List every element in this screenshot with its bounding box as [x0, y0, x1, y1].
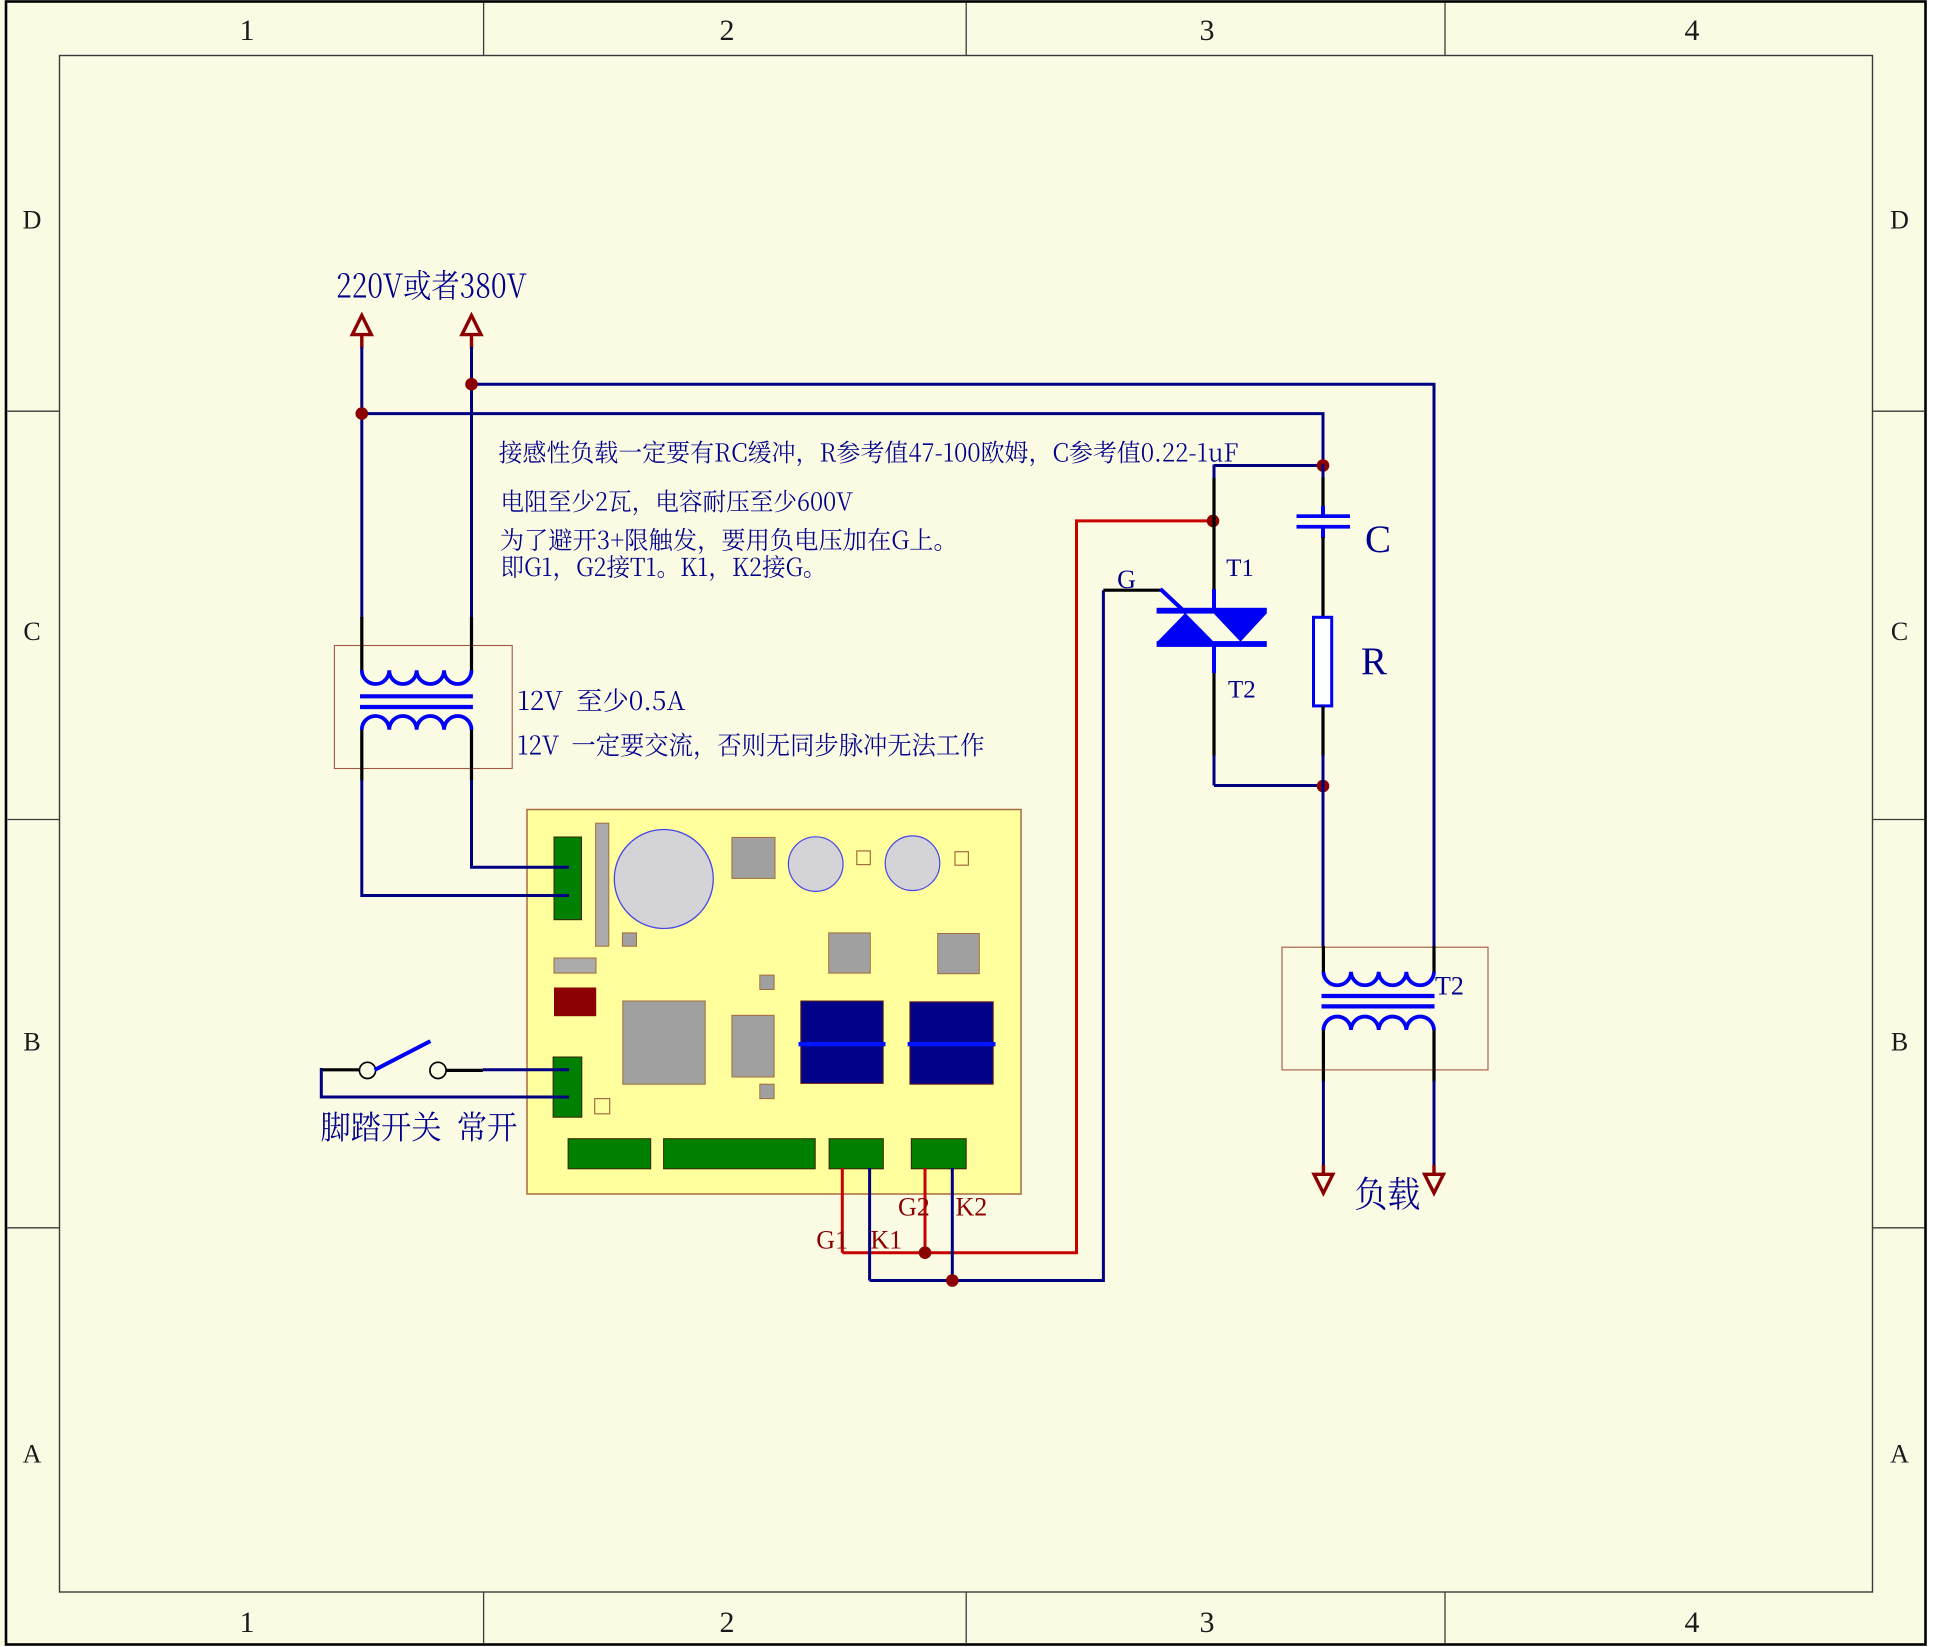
- board output connector 2: [664, 1139, 816, 1169]
- note: RC snubber advice line 2: [504, 489, 853, 515]
- svg-text:B: B: [1891, 1028, 1908, 1057]
- wire: left phase vertical to transformer T1: [360, 347, 363, 619]
- svg-text:K1: K1: [870, 1226, 902, 1255]
- svg-text:R: R: [1361, 640, 1387, 683]
- transformer T2 core: [1322, 994, 1435, 998]
- wire: rail B (left phase) to snubber column: [362, 414, 1323, 465]
- board part (right): [829, 933, 871, 973]
- board output connector 1: [568, 1139, 651, 1169]
- transformer T2 primary coil: [1323, 972, 1434, 985]
- wire: red gate bus to triac T1: [842, 521, 1214, 1253]
- transformer T2 secondary coil: [1323, 1017, 1434, 1030]
- board capacitor 2: [788, 837, 843, 892]
- power arrow P1 (left phase): [352, 315, 371, 334]
- wire: right phase vertical to transformer T1: [470, 347, 473, 619]
- load arrow left: [1322, 1165, 1325, 1175]
- resistor R pin bottom: [1321, 706, 1324, 756]
- svg-text:2: 2: [720, 1606, 735, 1639]
- svg-text:T2: T2: [1228, 676, 1256, 703]
- svg-text:2: 2: [720, 14, 735, 47]
- board pad (outline): [857, 851, 871, 865]
- board small rect (left): [554, 958, 596, 973]
- transformer T1 pins: [360, 617, 363, 671]
- svg-text:G1: G1: [816, 1226, 848, 1255]
- wire: switch to board connector (upper): [483, 1068, 569, 1071]
- wire: T1 pin horizontal to snubber column: [1214, 464, 1323, 467]
- junction: snubber bottom: [1317, 780, 1330, 793]
- board maroon component: [554, 988, 596, 1017]
- board gray header bar: [596, 823, 609, 946]
- triac Q1 T1 pin: [1213, 465, 1216, 479]
- label: foot switch, normally open: [322, 1111, 517, 1141]
- svg-text:C: C: [1891, 617, 1908, 646]
- wire: switch return (lower): [321, 1068, 569, 1097]
- svg-text:3: 3: [1200, 14, 1215, 47]
- foot switch lever: [375, 1041, 431, 1070]
- note: trigger advice line 1: [501, 528, 941, 554]
- junction: snubber top: [1317, 459, 1330, 472]
- junction: gate bus at triac T1 pin: [1207, 515, 1220, 528]
- junction: right phase / rail A: [465, 378, 478, 391]
- board connector (12V input): [554, 837, 582, 920]
- junction: K2 on K bus: [946, 1274, 959, 1287]
- junction: G2 on gate bus: [919, 1246, 932, 1259]
- board output connector 4 (G2 K2): [911, 1139, 966, 1169]
- transformer T1 body box: [334, 646, 512, 769]
- transformer T1 secondary coil: [362, 716, 472, 730]
- board pad 2 (outline): [955, 852, 968, 866]
- wire: K1 cathode lead (navy): [868, 1168, 871, 1281]
- wire: T1 secondary left to board connector: [362, 780, 569, 896]
- svg-text:A: A: [1890, 1439, 1909, 1468]
- wire: K bus to triac gate G: [870, 590, 1104, 1280]
- svg-text:3: 3: [1200, 1606, 1215, 1639]
- board main IC: [623, 1001, 705, 1084]
- resistor R body: [1314, 617, 1332, 706]
- capacitor C pin bottom / resistor pin top: [1321, 528, 1325, 538]
- wire: G2 gate lead (red): [924, 1168, 927, 1253]
- note: RC snubber advice line 1: [499, 440, 1237, 466]
- svg-text:T1: T1: [1226, 555, 1254, 582]
- board gray rect (middle): [732, 1015, 774, 1077]
- svg-text:D: D: [1890, 206, 1909, 235]
- power arrow P2 (right phase): [462, 315, 481, 334]
- svg-text:B: B: [23, 1028, 40, 1057]
- wire: triac T2 to snubber bottom: [1214, 784, 1323, 787]
- board part (far right): [938, 934, 980, 974]
- transformer T2 pins bottom: [1322, 1030, 1325, 1082]
- svg-text:T2: T2: [1435, 972, 1464, 1001]
- triac Q1 gate lead: [1103, 589, 1161, 592]
- svg-text:G2: G2: [898, 1192, 930, 1221]
- board electrolytic capacitor (large): [614, 830, 713, 929]
- wire: rail A (right phase) to right column: [472, 384, 1435, 948]
- svg-text:A: A: [23, 1439, 42, 1468]
- PCB controller board: [527, 810, 1021, 1195]
- board small part: [622, 933, 636, 946]
- board gray module: [732, 837, 775, 878]
- capacitor C pin top: [1322, 464, 1325, 478]
- wire: T2 right to load: [1433, 1081, 1436, 1166]
- transformer T2 body box: [1282, 947, 1488, 1070]
- triac Q1 body: [1157, 608, 1267, 614]
- transformer T1 core: [360, 694, 473, 698]
- svg-text:1: 1: [240, 14, 255, 47]
- wire: G1 gate lead (red): [841, 1168, 844, 1253]
- svg-text:4: 4: [1685, 14, 1700, 47]
- board relay 2: [910, 1002, 993, 1084]
- svg-text:K2: K2: [956, 1192, 988, 1221]
- wire: snubber bottom to transformer T2: [1322, 786, 1325, 948]
- svg-text:4: 4: [1685, 1606, 1700, 1639]
- power net label 220V/380V: [338, 270, 527, 300]
- board pad 3 (outline): [595, 1099, 610, 1114]
- label: load: [1356, 1177, 1419, 1211]
- board connector (foot switch input): [553, 1057, 582, 1117]
- svg-text:G: G: [1117, 565, 1136, 594]
- board relay 1: [801, 1001, 883, 1083]
- board capacitor 3: [885, 836, 940, 891]
- capacitor C plates: [1297, 514, 1351, 518]
- label: 12V at least 0.5A: [519, 688, 685, 712]
- transformer T2 pins top: [1322, 946, 1325, 973]
- board tiny part 2: [760, 1084, 774, 1098]
- board output connector 3 (G1 K1): [829, 1139, 883, 1169]
- board tiny part: [760, 975, 774, 989]
- svg-text:C: C: [23, 617, 40, 646]
- wire: K2 cathode lead (navy): [951, 1168, 954, 1281]
- triac Q1 T2 pin: [1212, 646, 1216, 674]
- svg-text:D: D: [23, 206, 42, 235]
- wire: T1 secondary right to board connector: [472, 780, 570, 867]
- wire: T2 left to load: [1322, 1081, 1325, 1166]
- load arrow right: [1432, 1165, 1435, 1175]
- svg-text:C: C: [1365, 518, 1391, 561]
- svg-text:1: 1: [240, 1606, 255, 1639]
- transformer T1 primary coil: [362, 670, 472, 684]
- note: trigger advice line 2: [503, 555, 811, 581]
- label: 12V must be AC: [519, 732, 984, 759]
- foot switch SW1: [321, 1068, 360, 1071]
- junction: left phase / rail B: [356, 407, 369, 420]
